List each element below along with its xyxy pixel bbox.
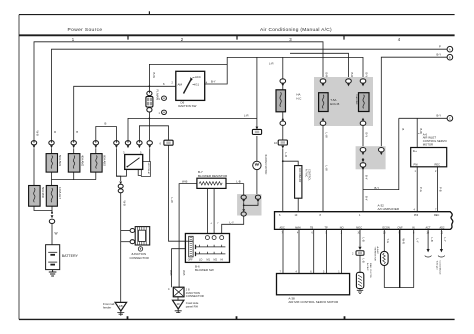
svg-text:L-R: L-R — [244, 114, 249, 118]
svg-text:B-Y: B-Y — [365, 73, 369, 78]
svg-text:IN: IN — [412, 227, 415, 230]
svg-text:IG+: IG+ — [413, 149, 418, 153]
svg-text:PNI: PNI — [414, 163, 419, 167]
svg-text:CONNECTOR: CONNECTOR — [186, 294, 204, 298]
svg-text:L-R: L-R — [284, 153, 288, 158]
svg-text:50A AM1: 50A AM1 — [58, 155, 62, 167]
svg-text:B-Y: B-Y — [365, 133, 369, 138]
svg-text:1F: 1F — [176, 302, 180, 306]
svg-text:L-Y: L-Y — [230, 220, 234, 224]
svg-text:BATTERY: BATTERY — [62, 254, 79, 258]
svg-text:W-B: W-B — [169, 270, 173, 276]
svg-text:OFF: OFF — [188, 259, 193, 262]
svg-text:L-R: L-R — [269, 62, 274, 66]
svg-text:B-W: B-W — [152, 73, 156, 79]
svg-text:AIR MIX CONTROL SERVO MOTOR: AIR MIX CONTROL SERVO MOTOR — [288, 300, 339, 304]
svg-text:H.C: H.C — [296, 96, 301, 100]
svg-text:L-W: L-W — [170, 198, 174, 203]
svg-text:IG1: IG1 — [195, 83, 200, 87]
svg-text:panel RH: panel RH — [186, 304, 198, 308]
svg-text:OVF: OVF — [398, 227, 404, 230]
svg-text:R: R — [53, 131, 57, 133]
svg-text:THERMISTOR: THERMISTOR — [373, 247, 375, 262]
svg-text:MOTOR: MOTOR — [423, 143, 433, 147]
svg-text:W: W — [55, 232, 58, 236]
svg-text:120A ALT: 120A ALT — [58, 187, 62, 199]
svg-text:To Engine: To Engine — [436, 261, 438, 271]
svg-text:ACC: ACC — [195, 75, 201, 79]
svg-text:C: C — [449, 116, 451, 120]
svg-text:L-W: L-W — [325, 133, 329, 138]
svg-text:A/C AMPLIFIER: A/C AMPLIFIER — [378, 207, 400, 211]
svg-text:A: A — [449, 47, 451, 51]
svg-text:HI: HI — [221, 259, 224, 262]
svg-text:P: P — [439, 45, 441, 49]
svg-text:W-B: W-B — [182, 179, 188, 183]
svg-text:LO: LO — [199, 259, 202, 262]
svg-text:B: B — [75, 131, 79, 133]
svg-text:B-Y: B-Y — [437, 52, 442, 56]
svg-text:PNI: PNI — [414, 214, 418, 217]
svg-text:ECON: ECON — [383, 227, 390, 230]
svg-text:ACT: ACT — [426, 227, 431, 230]
svg-text:feeder: feeder — [103, 306, 111, 310]
svg-text:B: B — [105, 122, 107, 126]
svg-text:L-B: L-B — [236, 179, 240, 183]
svg-text:M2: M2 — [214, 259, 218, 262]
svg-text:B: B — [449, 55, 451, 59]
svg-text:B-Y: B-Y — [365, 196, 369, 201]
svg-text:M1: M1 — [207, 259, 211, 262]
svg-text:W-B: W-B — [123, 201, 127, 207]
svg-text:AM: AM — [178, 83, 183, 87]
svg-text:REC: REC — [434, 214, 439, 217]
svg-text:50A MIR: 50A MIR — [41, 187, 45, 198]
svg-text:B-Y: B-Y — [437, 113, 442, 117]
svg-text:ECU-B: ECU-B — [330, 102, 339, 106]
svg-text:REC: REC — [435, 163, 441, 167]
svg-text:B-Y: B-Y — [211, 80, 216, 84]
svg-text:40A AM2: 40A AM2 — [80, 155, 84, 167]
svg-text:CONNECTOR: CONNECTOR — [130, 256, 150, 260]
svg-text:60A ABS: 60A ABS — [103, 155, 107, 166]
svg-text:NO: NO — [340, 227, 344, 230]
svg-text:A/C RELAY: A/C RELAY — [298, 168, 302, 183]
svg-text:Air Conditioning (Manual A/C): Air Conditioning (Manual A/C) — [260, 27, 332, 33]
svg-text:BLOWER SW: BLOWER SW — [195, 268, 214, 272]
svg-text:MGC: MGC — [356, 227, 362, 230]
svg-text:B-Y: B-Y — [375, 186, 380, 190]
svg-text:BLOWER RESISTOR: BLOWER RESISTOR — [198, 174, 228, 178]
svg-text:TP: TP — [325, 227, 329, 230]
svg-text:Power Source: Power Source — [68, 27, 103, 33]
svg-text:L-W: L-W — [325, 166, 329, 171]
svg-text:IGNITION SW: IGNITION SW — [178, 104, 197, 108]
svg-text:AMH: AMH — [295, 227, 301, 230]
svg-text:W-B: W-B — [182, 270, 186, 276]
svg-text:B-Y: B-Y — [365, 175, 369, 180]
svg-text:B-R: B-R — [325, 73, 329, 78]
svg-text:W-B: W-B — [36, 131, 40, 137]
svg-text:BLOWER MOTOR: BLOWER MOTOR — [264, 155, 267, 175]
svg-text:AD2: AD2 — [440, 227, 445, 230]
svg-text:B-R: B-R — [350, 73, 354, 78]
svg-text:CONTROL: CONTROL — [307, 169, 310, 181]
svg-text:ADC: ADC — [280, 227, 285, 230]
svg-text:1B: 1B — [119, 304, 123, 308]
svg-text:TB: TB — [310, 227, 314, 230]
